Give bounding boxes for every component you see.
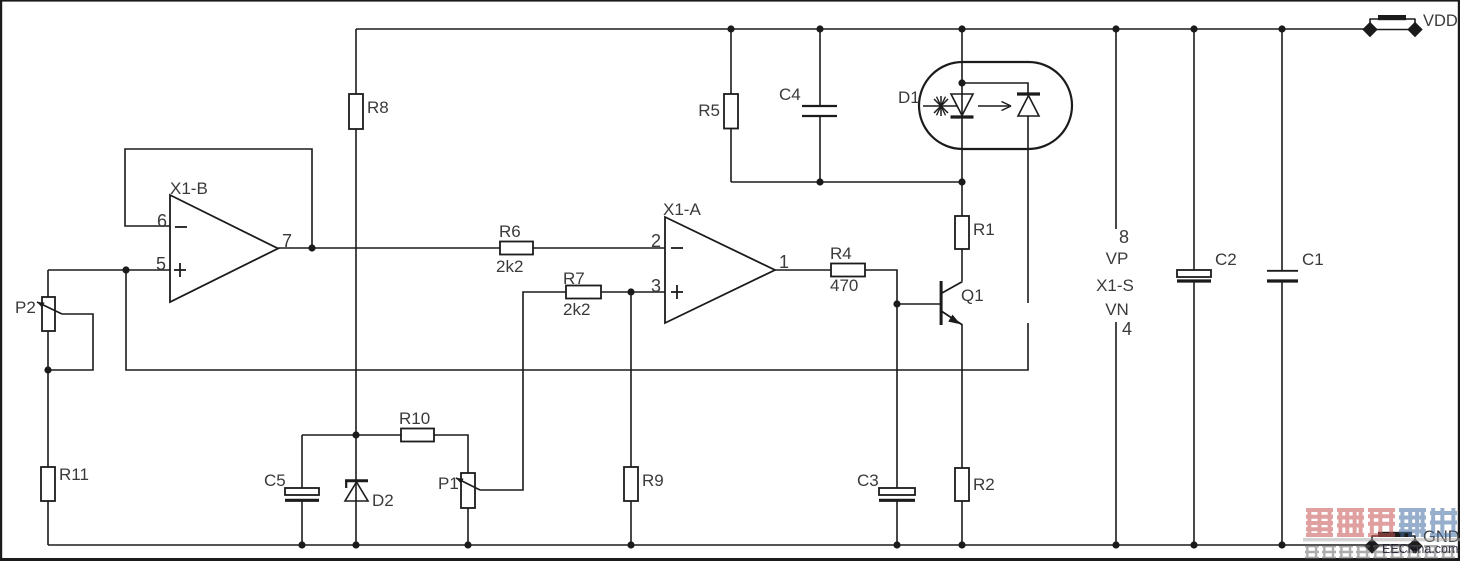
svg-text:EEChina.com: EEChina.com: [1382, 542, 1458, 556]
wire R6 to X1-A pin 2: [533, 247, 665, 249]
resistor R11: [41, 467, 55, 501]
junction dot pin 5 node: [122, 266, 129, 273]
op-amp X1-B: [170, 179, 278, 302]
optocoupler photodiode triangle and cathode bar: [1017, 92, 1040, 95]
junction dot C5/D2/R10 node: [352, 431, 359, 438]
resistor R7 value 2k2: [566, 286, 601, 299]
wire R5 top lead: [730, 29, 732, 94]
wire C2 top lead: [1193, 29, 1195, 270]
resistor R6 value 2k2: [500, 242, 533, 255]
watermark slogan text blocks: [1305, 545, 1455, 559]
junction dot pin 3 node: [627, 288, 634, 295]
wire Q1 emitter down through R2 to ground bus: [961, 325, 963, 468]
wire C3 bottom lead: [896, 502, 898, 546]
wire P1 bottom lead: [467, 508, 469, 545]
resistor R4 value 470: [831, 264, 865, 277]
svg-text:5: 5: [156, 254, 166, 274]
svg-text:VP: VP: [1106, 249, 1129, 268]
resistor R8: [349, 94, 363, 129]
wire P2 bottom lead through R11 to ground bus corner: [47, 331, 49, 467]
svg-text:VN: VN: [1105, 300, 1129, 319]
svg-text:D2: D2: [372, 491, 394, 510]
optocoupler D1 outline: [919, 62, 1072, 149]
svg-text:2: 2: [651, 231, 661, 251]
resistor R1: [955, 216, 969, 249]
junction dot P2 bottom node: [44, 366, 51, 373]
watermark logo text blocks: [1306, 508, 1457, 537]
optocoupler coupling arrow: [978, 105, 1009, 107]
wire P2 wiper connection: [48, 314, 93, 370]
junction dots on ground bus: [298, 541, 305, 548]
optocoupler LED triangle and cathode bar: [951, 94, 973, 116]
wire X1-A output to R4: [775, 269, 831, 271]
wire node R5/C4/LED bottom rail: [731, 181, 962, 183]
svg-text:R4: R4: [830, 244, 852, 263]
svg-text:7: 7: [282, 231, 292, 251]
optocoupler light star symbol: [923, 105, 957, 107]
wire R7 right lead to X1-A pin 3: [601, 291, 665, 293]
svg-text:C5: C5: [264, 471, 286, 490]
svg-text:8: 8: [1119, 227, 1129, 247]
svg-text:4: 4: [1122, 319, 1132, 339]
wire R5 bottom lead: [730, 129, 732, 183]
svg-text:R5: R5: [698, 101, 720, 120]
capacitor C3 (polarized): [879, 488, 915, 495]
svg-text:3: 3: [651, 276, 661, 296]
resistor R2: [955, 468, 969, 501]
svg-text:C2: C2: [1215, 250, 1237, 269]
svg-text:Q1: Q1: [961, 286, 984, 305]
wire X1-B pin 5 input: [48, 269, 170, 271]
wire R4 to Q1 base node: [865, 270, 940, 304]
wire C4 bottom lead: [819, 117, 821, 182]
wire C4 top lead: [819, 29, 821, 105]
junction dot X1-B feedback: [308, 244, 315, 251]
svg-text:R11: R11: [59, 465, 89, 484]
svg-text:6: 6: [157, 211, 167, 231]
svg-text:R1: R1: [973, 220, 995, 239]
svg-text:VDD: VDD: [1423, 12, 1458, 30]
wire ground bus: [48, 544, 1415, 546]
wire X1-B feedback loop from output to pin 6: [125, 149, 312, 248]
wire C5/R10 node: [302, 434, 401, 436]
capacitor C1: [1267, 270, 1298, 272]
capacitor C4: [802, 105, 837, 107]
op-amp supply pins X1-S with VP pin 8 and VN pin 4: [1096, 227, 1134, 339]
svg-text:X1-S: X1-S: [1096, 276, 1134, 295]
svg-text:P1: P1: [438, 474, 459, 493]
wire X1-S supply pin 8 from VDD rail: [1115, 29, 1117, 229]
wire P2 top lead: [47, 270, 49, 297]
wire C1 top lead: [1281, 29, 1283, 270]
svg-text:1: 1: [779, 252, 789, 272]
wire X1-B output net to R6: [278, 247, 500, 249]
svg-text:C4: C4: [779, 85, 801, 104]
zener diode D2: [345, 479, 368, 482]
potentiometer P2: [42, 297, 55, 331]
resistor R9: [624, 467, 638, 501]
wire R10 to P1 top: [434, 435, 468, 473]
wire C1 bottom lead: [1281, 282, 1283, 545]
transistor Q1 (NPN): [940, 281, 984, 325]
junction dots on VDD rail: [727, 25, 734, 32]
wire C5 bottom lead: [301, 502, 303, 546]
op-amp X1-A: [663, 200, 775, 323]
wire Q1 base node down to C3: [896, 304, 898, 488]
wire pin5 node down and across to photodiode: [126, 270, 1028, 370]
svg-text:2k2: 2k2: [496, 257, 523, 276]
capacitor C2 (polarized): [1177, 270, 1211, 277]
wire opto internal anode to photodiode: [962, 83, 1028, 93]
svg-text:470: 470: [830, 276, 858, 295]
svg-text:D1: D1: [898, 88, 920, 107]
svg-text:R9: R9: [642, 471, 664, 490]
svg-text:X1-A: X1-A: [663, 200, 701, 219]
svg-text:X1-B: X1-B: [170, 179, 208, 198]
watermark underline: [1303, 538, 1460, 541]
potentiometer P1: [461, 473, 475, 508]
svg-text:R10: R10: [399, 409, 430, 428]
capacitor C5 (polarized): [285, 488, 319, 495]
svg-text:R8: R8: [367, 98, 389, 117]
svg-text:R6: R6: [499, 222, 521, 241]
wire photodiode cathode lead (upper segment with gap): [1027, 116, 1029, 303]
svg-text:2k2: 2k2: [563, 300, 590, 319]
svg-text:R2: R2: [973, 475, 995, 494]
svg-text:C1: C1: [1302, 250, 1324, 269]
junction dots on R5/C4/LED bottom rail: [816, 178, 823, 185]
wire X1-S supply pin 4 to ground bus: [1115, 322, 1117, 545]
wire LED branch from VDD rail through optocoupler: [961, 29, 963, 182]
resistor R10: [401, 429, 434, 442]
resistor R5: [724, 94, 738, 129]
power port GND: [1364, 528, 1459, 554]
svg-text:P2: P2: [15, 298, 36, 317]
wire R8 branch from VDD rail down through D2 to ground bus: [355, 29, 357, 94]
wire C2 bottom lead: [1193, 282, 1195, 545]
wire R7 left lead down to P1 wiper: [480, 292, 566, 490]
wire LED cathode to R1: [961, 182, 963, 216]
junction dot Q1 base node: [893, 300, 900, 307]
junction dot opto anode node: [958, 79, 965, 86]
svg-text:C3: C3: [857, 471, 879, 490]
wire R9 branch from pin3 node to ground bus: [630, 292, 632, 467]
power port VDD: [1362, 12, 1458, 37]
wire R1 to Q1 collector: [961, 249, 963, 281]
wire VDD top rail: [356, 28, 1364, 30]
svg-text:R7: R7: [563, 269, 585, 288]
wire C5 top lead: [301, 435, 303, 488]
